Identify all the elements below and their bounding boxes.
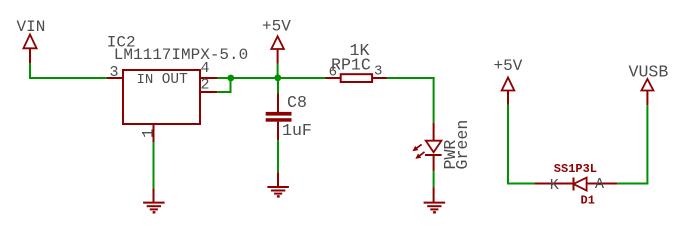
svg-text:A: A [595, 176, 604, 193]
svg-text:3: 3 [110, 64, 119, 81]
svg-text:3: 3 [374, 64, 382, 80]
svg-text:D1: D1 [581, 194, 595, 208]
svg-text:OUT: OUT [162, 72, 188, 88]
svg-text:1uF: 1uF [282, 121, 312, 140]
svg-text:IN: IN [137, 72, 154, 88]
svg-text:+5V: +5V [262, 18, 291, 36]
svg-text:VIN: VIN [17, 18, 46, 36]
svg-text:SS1P3L: SS1P3L [554, 162, 597, 176]
svg-text:1: 1 [139, 129, 157, 138]
svg-text:Green: Green [453, 120, 472, 170]
svg-text:LM1117IMPX-5.0: LM1117IMPX-5.0 [114, 46, 248, 64]
svg-text:VUSB: VUSB [629, 63, 669, 82]
svg-text:2: 2 [201, 77, 210, 94]
svg-text:6: 6 [329, 65, 337, 81]
svg-text:C8: C8 [287, 93, 307, 112]
svg-text:4: 4 [201, 60, 210, 77]
svg-text:K: K [550, 177, 559, 194]
svg-text:+5V: +5V [494, 57, 523, 75]
